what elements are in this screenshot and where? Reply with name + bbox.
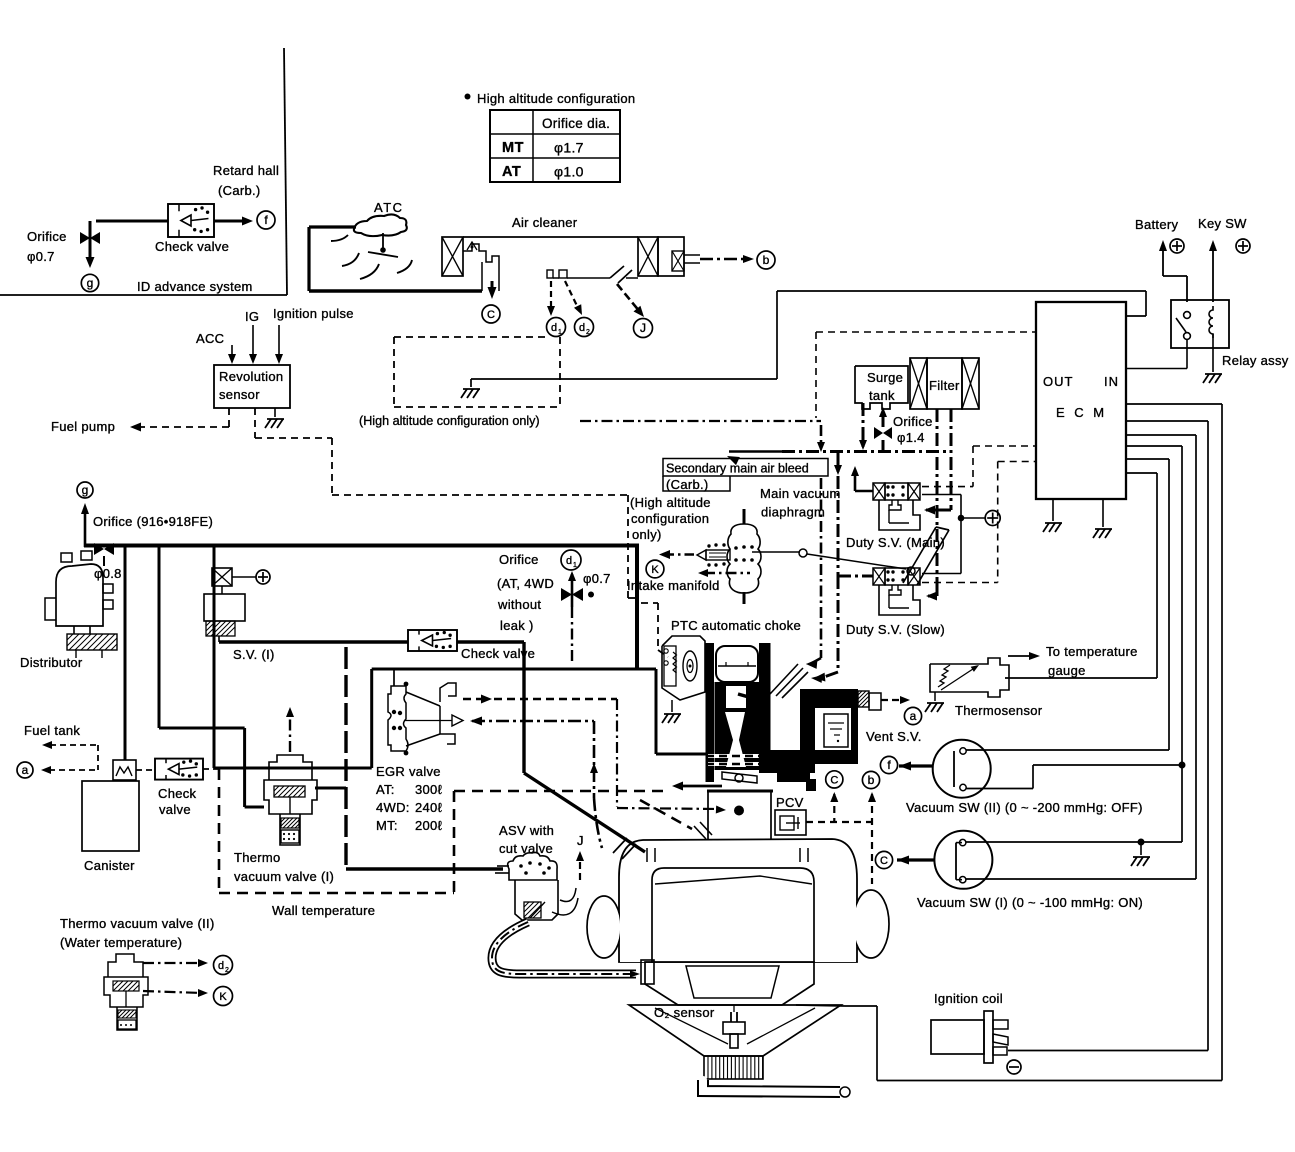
svg-text:Distributor: Distributor [20,655,83,670]
svg-text:b: b [868,773,875,787]
svg-text:Vent S.V.: Vent S.V. [866,729,922,744]
svg-text:Vacuum SW (II) (0 ~ -200 mmHg:: Vacuum SW (II) (0 ~ -200 mmHg: OFF) [906,800,1143,815]
svg-text:Orifice: Orifice [27,229,67,244]
svg-text:1: 1 [558,329,562,336]
svg-text:E C M: E C M [1056,405,1107,420]
svg-text:Secondary main air bleed: Secondary main air bleed [666,462,809,476]
svg-text:d: d [551,322,557,334]
svg-text:φ0.8: φ0.8 [94,566,122,581]
svg-text:Orifice: Orifice [499,552,539,567]
svg-text:g: g [87,276,94,290]
svg-text:φ0.7: φ0.7 [583,571,611,586]
svg-text:(Carb.): (Carb.) [218,183,261,198]
svg-text:Surge: Surge [867,370,903,385]
svg-text:(High altitude configuration o: (High altitude configuration only) [359,414,540,428]
svg-text:K: K [219,991,227,1003]
svg-text:IG: IG [245,309,259,324]
svg-text:d: d [218,960,224,972]
svg-text:Retard hall: Retard hall [213,163,279,178]
svg-text:sensor: sensor [219,387,260,402]
svg-text:Orifice dia.: Orifice dia. [542,116,610,131]
svg-text:Fuel pump: Fuel pump [51,419,115,434]
svg-text:Key SW: Key SW [1198,216,1247,231]
svg-text:φ1.7: φ1.7 [554,140,584,156]
svg-text:ATC: ATC [374,200,404,215]
svg-text:Filter: Filter [929,378,960,393]
svg-text:ACC: ACC [196,331,224,346]
svg-text:ID advance system: ID advance system [137,279,253,294]
svg-text:C: C [487,309,495,321]
svg-text:2: 2 [586,329,590,336]
svg-text:Thermo vacuum valve (II): Thermo vacuum valve (II) [60,916,215,931]
svg-text:φ1.4: φ1.4 [897,430,925,445]
svg-text:Thermo: Thermo [234,850,281,865]
svg-text:a: a [910,709,917,723]
svg-text:C: C [830,774,838,786]
svg-text:Orifice (916•918FE): Orifice (916•918FE) [93,514,213,529]
svg-text:AT:: AT: [376,782,395,797]
svg-text:Battery: Battery [1135,217,1178,232]
svg-text:Vacuum SW (I) (0 ~ -100 mmHg:: Vacuum SW (I) (0 ~ -100 mmHg: ON) [917,895,1143,910]
svg-text:g: g [82,483,89,497]
svg-text:Intake manifold: Intake manifold [627,578,720,593]
svg-text:MT: MT [502,140,524,156]
svg-text:J: J [640,321,646,335]
svg-text:tank: tank [869,388,895,403]
svg-text:(Water temperature): (Water temperature) [60,935,182,950]
svg-text:PCV: PCV [776,795,804,810]
svg-text:Canister: Canister [84,858,135,873]
svg-text:Relay assy: Relay assy [1222,353,1289,368]
svg-text:without: without [497,597,541,612]
svg-text:ASV with: ASV with [499,823,554,838]
svg-text:Ignition coil: Ignition coil [934,991,1003,1006]
svg-text:Fuel tank: Fuel tank [24,723,80,738]
svg-text:Wall temperature: Wall temperature [272,903,375,918]
svg-text:AT: AT [502,164,521,180]
svg-text:C: C [880,855,888,867]
svg-text:1: 1 [573,562,577,569]
svg-text:d: d [579,322,585,334]
svg-text:4WD:: 4WD: [376,800,410,815]
svg-text:MT:: MT: [376,818,398,833]
svg-text:Check valve: Check valve [155,239,229,254]
svg-text:(Carb.): (Carb.) [666,477,709,492]
svg-text:(AT, 4WD: (AT, 4WD [497,576,554,591]
svg-text:configuration: configuration [631,511,709,526]
svg-text:2: 2 [225,967,229,974]
svg-text:J: J [577,833,584,848]
svg-text:φ0.7: φ0.7 [27,249,55,264]
svg-text:(High altitude: (High altitude [630,495,711,510]
svg-text:diaphragm: diaphragm [761,505,825,520]
svg-text:φ1.0: φ1.0 [554,164,584,180]
svg-text:only): only) [632,527,662,542]
svg-text:valve: valve [159,802,191,817]
svg-text:gauge: gauge [1048,663,1086,678]
svg-text:PTC automatic choke: PTC automatic choke [671,618,801,633]
svg-text:Duty S.V. (Slow): Duty S.V. (Slow) [846,622,945,637]
svg-text:240ℓ: 240ℓ [415,800,443,815]
svg-text:Check: Check [158,786,197,801]
svg-text:High altitude configuration: High altitude configuration [477,91,635,106]
svg-text:a: a [22,763,29,777]
svg-text:Thermosensor: Thermosensor [955,703,1043,718]
svg-text:IN: IN [1104,374,1119,389]
svg-text:OUT: OUT [1043,374,1073,389]
svg-text:O₂ sensor: O₂ sensor [654,1005,715,1020]
svg-text:leak ): leak ) [500,618,534,633]
svg-text:S.V. (I): S.V. (I) [233,647,275,662]
svg-text:Orifice: Orifice [893,414,933,429]
svg-text:K: K [651,564,659,576]
svg-text:Main vacuum: Main vacuum [760,486,841,501]
svg-text:Revolution: Revolution [219,369,283,384]
svg-text:Air cleaner: Air cleaner [512,215,578,230]
svg-text:Ignition pulse: Ignition pulse [273,306,354,321]
svg-text:To temperature: To temperature [1046,644,1138,659]
svg-text:300ℓ: 300ℓ [415,782,443,797]
svg-text:d: d [566,555,572,567]
svg-text:EGR valve: EGR valve [376,764,441,779]
svg-text:200ℓ: 200ℓ [415,818,443,833]
svg-text:vacuum valve (I): vacuum valve (I) [234,869,334,884]
svg-text:b: b [763,253,770,267]
